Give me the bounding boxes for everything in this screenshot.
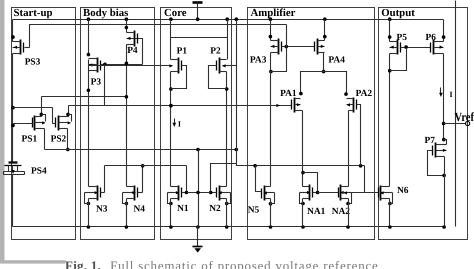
transistor NA2 bbox=[339, 185, 352, 201]
transistor P1 bbox=[171, 58, 187, 89]
label N6 bbox=[397, 186, 409, 196]
wire PS2 drain down bbox=[66, 129, 70, 152]
svg-text:N3: N3 bbox=[96, 204, 108, 214]
wire PS1 bulk jog bbox=[42, 115, 46, 122]
label PS3 bbox=[25, 58, 41, 68]
Body bias section box bbox=[81, 8, 155, 240]
wire N4 source down bbox=[126, 199, 128, 227]
label P5 bbox=[397, 33, 408, 43]
svg-text:P7: P7 bbox=[425, 136, 436, 146]
label PA4 bbox=[328, 55, 345, 65]
svg-text:P6: P6 bbox=[426, 33, 437, 43]
label N1 bbox=[177, 204, 189, 214]
wire P7 diode tie bbox=[428, 151, 446, 178]
label N3 bbox=[96, 204, 108, 214]
transistor N1 bbox=[168, 186, 187, 201]
transistor N3 bbox=[85, 186, 105, 201]
wire P4 gate lead riser bbox=[132, 39, 143, 65]
svg-text:P5: P5 bbox=[397, 33, 408, 43]
wire body-bias left vertical bbox=[87, 20, 91, 206]
wire N6 source down bbox=[389, 199, 391, 227]
svg-text:PS3: PS3 bbox=[25, 58, 41, 68]
transistor PA1 bbox=[292, 98, 303, 113]
wire startup drain line y150 bbox=[45, 148, 239, 152]
transistor P2 bbox=[209, 58, 227, 89]
wire P5 vertical chain bbox=[388, 20, 392, 206]
svg-text:I: I bbox=[178, 120, 181, 129]
label PS1 bbox=[22, 134, 38, 144]
svg-text:P2: P2 bbox=[210, 46, 221, 56]
transistor P7 bbox=[433, 140, 447, 158]
label Vref bbox=[455, 110, 474, 124]
transistor PS1 bbox=[13, 116, 46, 131]
wire P7 drain down bbox=[444, 157, 446, 227]
wire core gate line bbox=[187, 192, 211, 194]
Core label bbox=[164, 7, 187, 19]
wire PA4 vertical bbox=[322, 20, 327, 74]
wire N-gate line (body/core) bbox=[105, 165, 187, 167]
svg-text:Start-up: Start-up bbox=[14, 7, 53, 19]
wire PS2 source riser (long-wire tap) bbox=[66, 106, 70, 117]
wire NA1/NA2 gate line bbox=[318, 192, 339, 194]
VDD symbol (cropped) bbox=[193, 3, 203, 20]
svg-text:PS4: PS4 bbox=[31, 167, 47, 177]
label P2 bbox=[210, 46, 221, 56]
svg-text:PA1: PA1 bbox=[280, 89, 297, 99]
wire N3/N4 gate risers bbox=[105, 164, 145, 193]
wire P3/P4 gate node line bbox=[101, 63, 143, 67]
svg-text:PA2: PA2 bbox=[356, 89, 373, 99]
wire NA2 bulk/N6 gate line bbox=[343, 166, 379, 195]
wire startup gate line (PS3 gate to amp mirror) bbox=[30, 25, 287, 48]
caption (cropped) bbox=[65, 258, 378, 269]
wire bottom rail bbox=[13, 226, 445, 228]
current arrow core bbox=[173, 119, 182, 129]
transistor PS2 bbox=[53, 116, 72, 131]
label P1 bbox=[177, 46, 188, 56]
svg-text:N6: N6 bbox=[397, 186, 409, 196]
label P7 bbox=[425, 136, 436, 146]
wire N1 source down bbox=[170, 199, 172, 227]
label PS4 bbox=[31, 167, 47, 177]
label PS2 bbox=[51, 134, 67, 144]
wire N5 bulk tie bbox=[271, 193, 275, 204]
svg-text:N1: N1 bbox=[177, 204, 189, 214]
svg-text:NA2: NA2 bbox=[332, 207, 351, 217]
transistor N6 bbox=[379, 186, 393, 201]
wire N5 source down bbox=[270, 199, 272, 227]
wire NA1 diode tie bbox=[303, 173, 320, 195]
wire N3 source down bbox=[88, 199, 90, 227]
label N4 bbox=[134, 204, 146, 214]
current arrow output bbox=[439, 88, 453, 100]
svg-text:Body bias: Body bias bbox=[83, 7, 128, 19]
terminal Vref bbox=[466, 121, 470, 125]
wire startup line A to amplifier bbox=[237, 20, 365, 168]
label P4 bbox=[127, 46, 138, 56]
svg-text:I: I bbox=[450, 90, 453, 99]
transistor PA3 bbox=[271, 39, 287, 55]
Start-up label bbox=[14, 7, 53, 19]
wire N3 bulk tie bbox=[85, 193, 89, 204]
wire N2 bulk tie bbox=[227, 193, 231, 204]
wire PS1 source riser bbox=[40, 97, 44, 117]
wire Vref lead bbox=[444, 123, 466, 125]
transistor PA2 bbox=[346, 98, 360, 166]
svg-text:Output: Output bbox=[381, 7, 415, 19]
svg-text:N4: N4 bbox=[134, 204, 146, 214]
wire core right vertical bbox=[225, 20, 229, 206]
wire cropped right vertical bbox=[455, 1, 457, 227]
wire P1 bulk bias line bbox=[89, 64, 174, 67]
wire PA1 drain down bbox=[301, 111, 305, 187]
transistor P3 bbox=[89, 58, 105, 73]
wire long bias line to PA1 gate bbox=[69, 104, 292, 108]
Output section box bbox=[379, 8, 468, 240]
svg-text:P1: P1 bbox=[177, 46, 188, 56]
capacitor PS4 (MOS cap) bbox=[4, 156, 25, 227]
wire P5 diode tie bbox=[390, 48, 407, 71]
Output label bbox=[381, 7, 415, 19]
wire VDD rail bbox=[13, 19, 444, 21]
wire P5/P6 gate line bbox=[401, 45, 431, 49]
wire PA3 vertical chain bbox=[269, 20, 273, 206]
wire N1 gate riser bbox=[185, 166, 189, 195]
wire PS3 source/drain left rail bbox=[11, 20, 15, 156]
wire N2 gate jog bbox=[209, 164, 237, 195]
wire NA2 source down bbox=[348, 199, 350, 227]
label PA3 bbox=[250, 55, 267, 65]
wire N1 bulk tie bbox=[168, 193, 173, 206]
svg-text:PS2: PS2 bbox=[51, 134, 67, 144]
wire PA4 drain node branches bbox=[299, 72, 348, 96]
svg-text:Amplifier: Amplifier bbox=[251, 7, 296, 19]
label P3 bbox=[91, 78, 102, 88]
wire NA1 bulk tie bbox=[300, 193, 305, 206]
svg-text:Core: Core bbox=[164, 7, 187, 19]
wire NA2 bulk tie bbox=[346, 193, 351, 206]
transistor P4 bbox=[127, 31, 138, 47]
wire PA3 diode tie bbox=[271, 25, 287, 72]
wire PA3/PA4 gate line bbox=[282, 45, 315, 49]
svg-text:PA4: PA4 bbox=[328, 55, 345, 65]
label PA1 bbox=[280, 89, 297, 99]
wire NA1 source down bbox=[302, 199, 304, 227]
wire startup node line y108 bbox=[13, 107, 53, 109]
transistor P6 bbox=[431, 40, 444, 55]
svg-text:P3: P3 bbox=[91, 78, 102, 88]
ground bbox=[193, 227, 203, 253]
wire P2 bulk bias line bbox=[222, 64, 237, 67]
node VDD-rail junctions bbox=[87, 17, 392, 21]
transistor N5 bbox=[256, 166, 275, 201]
transistor N2 bbox=[211, 186, 231, 201]
Start-up section box bbox=[12, 8, 76, 240]
svg-text:PA3: PA3 bbox=[250, 55, 267, 65]
Core section box bbox=[161, 8, 232, 240]
label N2 bbox=[209, 204, 221, 214]
svg-text:P4: P4 bbox=[127, 46, 138, 56]
wire core center vertical bbox=[196, 150, 200, 227]
transistor NA1 bbox=[300, 185, 318, 201]
wire P1/P2 source link bbox=[171, 37, 228, 39]
wire N4 bulk tie bbox=[123, 193, 127, 204]
node bottom rail junctions bbox=[87, 225, 446, 229]
svg-text:Fig. 1. Full schematic of prop: Fig. 1. Full schematic of proposed volta… bbox=[65, 258, 378, 269]
page left grey edge bbox=[0, 0, 5, 262]
wire PS2 bulk jog bbox=[69, 115, 72, 122]
wire core left vertical bbox=[169, 20, 173, 187]
wire P3 gate node riser to long wire bbox=[104, 65, 106, 106]
svg-text:N2: N2 bbox=[209, 204, 221, 214]
wire P4 source/drain vertical bbox=[125, 20, 129, 206]
wire N6 bulk tie bbox=[390, 193, 393, 204]
wire startup node line y97 bbox=[42, 96, 127, 98]
wire PA2 drain down bbox=[348, 111, 350, 187]
label NA1 bbox=[307, 207, 326, 217]
wire N2 source down bbox=[226, 199, 228, 227]
transistor PA4 bbox=[315, 39, 325, 55]
page bottom-left grey band bbox=[0, 260, 66, 263]
transistor P5 bbox=[390, 40, 407, 55]
Amplifier section box bbox=[248, 8, 375, 240]
Body bias label bbox=[83, 7, 128, 19]
transistor N4 bbox=[123, 186, 143, 201]
svg-text:N5: N5 bbox=[248, 206, 260, 216]
node PS3 drain to PS1 gate bbox=[11, 106, 15, 127]
Amplifier label bbox=[251, 7, 296, 19]
wire P6 vertical chain bbox=[442, 20, 446, 142]
svg-text:Vref: Vref bbox=[455, 110, 474, 124]
label PA2 bbox=[356, 89, 373, 99]
label P6 bbox=[426, 33, 437, 43]
wire PS2 gate riser bbox=[52, 108, 54, 124]
label N5 bbox=[248, 206, 260, 216]
wire PS1 drain down bbox=[44, 129, 46, 150]
label NA2 bbox=[332, 207, 351, 217]
transistor PS3 bbox=[13, 40, 30, 55]
svg-text:PS1: PS1 bbox=[22, 134, 38, 144]
svg-text:NA1: NA1 bbox=[307, 207, 326, 217]
